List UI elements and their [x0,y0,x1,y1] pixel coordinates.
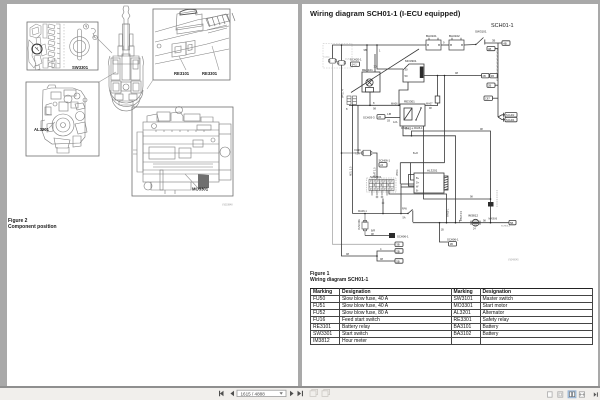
meter IM3812 hour meter [468,214,480,231]
node junction second rail [341,152,378,257]
svg-text:14.1: 14.1 [352,63,358,67]
battery BA3101 [426,34,441,50]
wire second rail dark [342,65,396,261]
node tag SCH04 [505,117,517,122]
relay RE3101 battery relay [362,68,380,92]
wire label VBAT rotated hour rail [459,210,463,222]
wire label MA05-1 rotated right drop [447,208,450,217]
svg-text:MA05-1: MA05-1 [447,208,450,217]
svg-text:W: W [416,186,419,189]
leader MO box to machine [132,100,140,107]
relay RE3301 safety relay [400,99,425,126]
label MO3301 [192,187,209,192]
svg-text:MA05-4: MA05-4 [405,127,414,130]
svg-text:9B: 9B [364,48,367,52]
svg-text:2B: 2B [396,249,400,253]
wire label 98 right [483,217,498,222]
svg-text:98: 98 [373,107,376,111]
wire AL B+ riser [411,163,415,180]
node tag SCH06-1 lower [447,238,459,247]
node SCH01-1 heading [491,23,514,29]
wire AL3201 inputs [400,184,414,214]
svg-text:C87: C87 [485,97,490,101]
switch SW3301 start switch [367,175,397,192]
wire mid rail [349,104,400,106]
wire 98 branch upper [405,127,491,202]
component box RE relays [153,9,230,80]
svg-text:3B: 3B [396,243,400,247]
fuse FU52 [358,213,368,236]
wire top rail [333,45,427,61]
wire RE3101 to node rail [369,92,371,105]
fuse FU51 [338,58,352,65]
toolbar disabled icon 2 [322,389,330,396]
svg-text:SCH01-1: SCH01-1 [491,23,514,29]
node tag 4B [502,41,510,46]
svg-text:9: 9 [443,41,445,45]
wire label VPDL [342,89,345,98]
svg-text:1B: 1B [441,229,444,232]
wire bus bottom fanout [498,113,505,122]
wire battery link [441,41,449,46]
wire MO3301 pin30 [374,45,404,69]
battery BA3102 [449,34,464,50]
wire SCH06-1 lower branch [440,223,449,242]
node tag pair EC02 EC03 [482,74,498,79]
connector pin marks [376,197,383,198]
svg-text:FU52 80A: FU52 80A [358,219,361,230]
motor MO3301 start motor [403,59,424,82]
wire diagonal battery to relay [351,49,419,93]
component box SW3301 [27,22,98,70]
svg-text:VBAT 0.5: VBAT 0.5 [460,210,463,221]
label RE3101 [174,71,190,76]
svg-text:98: 98 [380,257,383,261]
wire label MA06 [391,102,433,130]
node tag end light rail [395,242,403,247]
svg-text:SCH06-1: SCH06-1 [379,159,391,163]
key switch console drawing [28,24,64,70]
toolbar page combobox [237,390,286,396]
node tag SCH06-1 upper [379,159,391,168]
toolbar next-page button [290,391,294,396]
svg-text:1: 1 [379,49,381,53]
toolbar view icon single [548,392,553,397]
toolbar first-page button [219,391,224,396]
wire battery to master switch [464,44,476,47]
fuse FU50 [324,56,337,63]
wire label MDL rotated [350,166,353,176]
node tag SCH03-3 [363,115,385,120]
toolbar prev-page button [230,391,234,396]
wire 98 branch lower [424,126,492,200]
node tag SCH20-1 [350,58,362,67]
svg-text:R/W: R/W [402,208,408,211]
node tag hour rail end [501,220,516,227]
switch hour meter contact [402,208,413,222]
wire left drop [352,105,354,213]
svg-text:50: 50 [405,74,409,78]
svg-text:12A: 12A [393,121,398,124]
label AL3201 [34,127,50,132]
wire AL D+ riser [397,163,400,184]
wire bus hatching [497,49,498,81]
svg-text:SCH20-1: SCH20-1 [350,58,362,62]
svg-text:AL3201: AL3201 [34,127,50,132]
svg-text:30: 30 [405,68,409,72]
wire key switch pins [372,191,387,196]
svg-text:SCH02: SCH02 [506,113,515,117]
svg-text:1B: 1B [387,119,390,122]
toolbar view icon fit [558,392,563,397]
svg-text:30: 30 [374,65,377,69]
svg-text:B-: B- [416,190,419,193]
leader RE box to machine [147,80,153,89]
node left page figure code [222,205,233,207]
svg-text:MO3301: MO3301 [192,187,209,192]
excavator top view drawing [109,6,144,111]
wire key switch to right drop [389,191,447,223]
svg-text:B+R: B+R [413,152,418,155]
leader AL box to machine [99,72,116,82]
node tag 5B [395,259,403,264]
toolbar view icon width [579,392,584,397]
svg-text:SCH05-1: SCH05-1 [501,226,511,228]
wire MO3301 pin50 [424,71,482,76]
svg-text:SW3301: SW3301 [370,175,382,179]
alternator engine front drawing [41,85,87,153]
svg-text:1B: 1B [450,242,453,246]
svg-text:1615 / 4888: 1615 / 4888 [241,391,266,396]
toolbar view icon two-page selected [568,391,576,398]
svg-text:IM3812: IM3812 [468,214,478,218]
svg-text:SCH04: SCH04 [506,118,515,122]
svg-text:BA3101: BA3101 [426,34,437,38]
svg-text:V1040045: V1040045 [508,260,519,262]
connector dashed marker [496,190,498,207]
node tag 2B mid [487,83,498,88]
toolbar partial icon right edge [594,392,598,396]
node junctions mid rail [352,105,400,107]
svg-text:MA06: MA06 [391,102,398,105]
svg-text:8: 8 [373,101,375,105]
svg-text:3B: 3B [492,39,495,43]
toolbar disabled icon 1 [310,389,318,396]
svg-text:98: 98 [455,71,458,75]
svg-text:2B: 2B [483,74,486,78]
svg-text:D+: D+ [416,182,420,185]
svg-text:1JB: 1JB [387,113,392,116]
svg-text:B+: B+ [416,177,420,180]
connector X1 pair [347,96,357,105]
node tag SCH02 [505,113,517,118]
svg-text:5B: 5B [396,259,400,263]
leader AL3201 label [49,122,55,128]
wire AL feed rail [400,152,444,163]
wire long right drop [444,75,446,163]
key circle highlight [32,44,42,54]
wire right bus [497,43,499,117]
wire FU16 to key switch [373,153,377,179]
svg-text:SCH06-1: SCH06-1 [397,235,409,239]
toolbar last-page button [298,391,304,396]
component box MO3301 [132,107,233,196]
wire label VBAT rotated [374,167,377,178]
alternator AL3201 [409,168,449,193]
svg-text:SCH06-1: SCH06-1 [447,238,459,242]
svg-text:8: 8 [346,107,348,111]
svg-text:98: 98 [346,252,349,256]
relay compartment drawing [155,9,235,64]
connector black lower [389,233,409,239]
svg-text:98: 98 [480,128,483,131]
svg-text:SCH03-3: SCH03-3 [363,115,375,119]
wire hour meter rail [413,222,509,224]
svg-text:2B: 2B [488,84,491,88]
svg-text:MA05-4: MA05-4 [414,127,423,130]
svg-text:98: 98 [483,220,486,223]
node junctions hour rail [439,222,492,224]
wire RE3301 bottom branch [393,121,456,223]
svg-text:RE3301: RE3301 [202,71,218,76]
svg-text:RE3301: RE3301 [404,99,415,103]
svg-text:5B: 5B [510,221,513,225]
svg-text:BA3102: BA3102 [449,34,460,38]
label SW3301 [72,65,89,70]
engine side view drawing [133,107,231,195]
node figure code [508,260,519,262]
fuse FU16 [342,149,372,156]
wire RE3301 right pin [425,103,438,110]
wire key switch acc drop [382,199,384,215]
node tag EC07 [484,96,498,101]
svg-text:4B: 4B [503,41,507,45]
svg-text:MA07: MA07 [426,102,433,105]
wire second drop [357,105,359,153]
node tag EC05 [487,47,498,51]
svg-text:VBRG: VBRG [397,169,399,176]
component box AL3201 [26,82,99,156]
leader MO3301 label [185,174,197,187]
svg-text:24: 24 [473,228,476,231]
svg-text:SW3101: SW3101 [475,30,487,34]
key switch face drawing [70,24,98,60]
svg-text:MDL 1.5: MDL 1.5 [350,166,353,176]
switch SW3101 master switch [475,30,487,46]
wire hour meter feed rail [353,210,409,214]
svg-text:7.5A: 7.5A [355,152,360,155]
wire RE3101 coil feed [364,45,376,72]
svg-text:RE3101: RE3101 [362,68,373,72]
node junction top rail [341,44,378,46]
leader SW3301 to machine [98,39,112,53]
svg-text:98: 98 [429,107,432,110]
wire left rail light [333,63,396,244]
svg-text:4: 4 [380,247,382,251]
svg-text:AL3201: AL3201 [427,168,438,172]
wire master switch to tag [485,39,502,44]
svg-text:RE3101: RE3101 [174,71,190,76]
leader RE3101 label [179,46,219,70]
dashed fuse enclosure [323,44,352,69]
svg-text:98: 98 [470,196,473,199]
svg-text:SW3301: SW3301 [72,65,89,70]
connector EC black [488,202,494,223]
svg-text:MA05-B: MA05-B [489,217,498,220]
svg-text:4B: 4B [488,47,491,51]
svg-text:FU50: FU50 [324,56,331,59]
svg-text:24: 24 [380,163,383,167]
key glyph inside circle [35,47,39,51]
wire coil input [385,113,400,123]
wire FU52 branch [365,229,389,235]
svg-text:V1019848: V1019848 [222,205,233,207]
svg-text:3B: 3B [491,74,494,78]
svg-text:5A: 5A [403,216,406,219]
wire labels bottom tags [346,247,383,261]
svg-text:VPDL 4: VPDL 4 [342,89,345,98]
wire MO3301 ground branch [399,82,408,105]
svg-text:MA08-1: MA08-1 [358,210,367,213]
svg-text:MO3301: MO3301 [405,59,417,63]
node tag 2B [395,249,403,254]
wire label 8 [346,101,376,111]
label RE3301 [202,71,218,76]
connector MA05 inline [435,75,440,103]
